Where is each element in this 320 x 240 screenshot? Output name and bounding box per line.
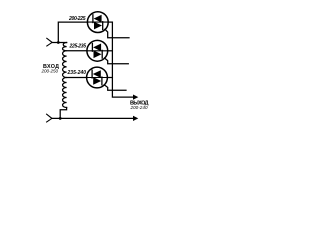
node junction at input top <box>57 41 60 44</box>
wire bottom rail to output arrow <box>52 117 135 119</box>
wire junction up and right to triac VS1 <box>58 22 87 42</box>
wire VS1 anode to bus <box>108 21 112 23</box>
triac VS3 <box>87 67 108 88</box>
svg-text:200-240: 200-240 <box>130 105 148 110</box>
wire coil bottom jog to bottom rail <box>60 108 66 119</box>
output arrowhead bottom <box>133 116 138 121</box>
triac VS2 <box>87 40 108 61</box>
svg-text:235-240: 235-240 <box>67 70 87 76</box>
gate VS3 <box>104 85 126 91</box>
input terminal arrow bottom (neutral) <box>47 114 52 122</box>
bus wire common anodes down to output <box>112 22 134 97</box>
wire VS3 anode to bus <box>107 77 112 79</box>
output arrowhead top <box>133 95 138 100</box>
svg-text:200-250: 200-250 <box>41 69 59 74</box>
triac VS1 <box>87 12 108 33</box>
wire coil tap1 to triac VS2 <box>67 50 87 52</box>
svg-text:225-235: 225-235 <box>69 44 87 50</box>
autotransformer winding T1 <box>63 43 67 108</box>
wire coil tap2 to triac VS3 <box>67 77 87 79</box>
wire input top to coil top <box>52 42 67 44</box>
gate VS1 <box>105 29 129 38</box>
input terminal arrow top (phase) <box>47 38 52 46</box>
wire VS2 anode to bus <box>108 50 113 52</box>
node junction at bottom rail <box>59 117 62 120</box>
svg-text:200-225: 200-225 <box>68 16 86 22</box>
gate VS2 <box>105 58 129 64</box>
